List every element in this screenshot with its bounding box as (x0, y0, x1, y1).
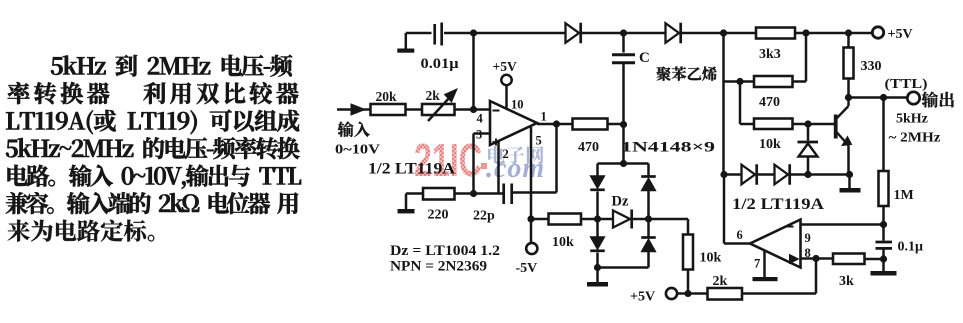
svg-text:6: 6 (737, 228, 743, 242)
U1 minus mark (493, 110, 500, 112)
svg-text:5: 5 (536, 134, 542, 148)
label U1 1/2 LT119A (368, 161, 456, 178)
op-amp U2 1/2 LT119A (750, 220, 801, 268)
label 470 (R8) (759, 95, 780, 110)
label C (639, 50, 650, 66)
label pin 3 (476, 128, 482, 142)
wire node A down to input node (472, 33, 475, 110)
label pin 8 (805, 246, 811, 260)
label 0-10V (335, 142, 380, 157)
U2 plus mark (790, 255, 799, 264)
node bridge bottom (594, 264, 601, 271)
wire R12 to 0.1u node (865, 258, 884, 261)
label 3k (839, 274, 854, 289)
wire to D7 (724, 173, 742, 176)
svg-text:4: 4 (477, 112, 484, 126)
terminal +5V (top right) (872, 27, 883, 38)
svg-text:.com: .com (486, 153, 545, 184)
capacitor C2 22p (504, 184, 512, 205)
label -5V (516, 261, 538, 276)
node pin9 junction (880, 221, 887, 228)
U1 pin 10 stem (505, 85, 508, 109)
node bridge right mid (645, 215, 652, 222)
description text block (6, 55, 301, 242)
wire U2 output (724, 242, 750, 245)
resistor R9 10k (740, 119, 793, 130)
capacitor C4 0.1u (876, 242, 893, 271)
U2 pin 7 stem and ground (753, 250, 778, 281)
capacitor C1 0.01u (435, 23, 474, 46)
wire +5V to R13 (677, 292, 708, 295)
svg-text:10: 10 (511, 98, 524, 112)
svg-text:7: 7 (754, 257, 760, 271)
svg-text:(TTL): (TTL) (885, 77, 928, 92)
wire U2 output up (723, 175, 726, 244)
label 5kHz (896, 112, 928, 127)
label 1N4148x9 (621, 140, 715, 156)
op-amp U1 1/2 LT119A (490, 101, 537, 145)
label Dz = LT1004 1.2 (390, 243, 500, 259)
diode D3 (590, 176, 605, 190)
label pin 1 (541, 110, 547, 124)
diode D5 (590, 237, 605, 251)
label 330 (861, 59, 882, 74)
svg-text:22p: 22p (473, 209, 495, 224)
wire D8 to ground node (791, 171, 854, 178)
svg-text:-5V: -5V (516, 261, 538, 276)
resistor R13 2k (708, 288, 743, 300)
wire down to -5V terminal (530, 219, 533, 243)
terminal -5V (526, 243, 537, 254)
svg-text:1N4148×9: 1N4148×9 (621, 140, 715, 156)
label 2k (R13) (713, 274, 728, 289)
label 2k (426, 88, 441, 103)
node 3k junction (880, 255, 887, 262)
label U2 1/2 LT119A (732, 196, 825, 213)
label 10k (R9) (759, 137, 781, 152)
label +5V (bottom) (630, 290, 655, 305)
svg-text:470: 470 (578, 140, 599, 155)
U1 pin 5 stem (530, 127, 533, 219)
label 22p (473, 209, 495, 224)
wire bus to R8 (724, 78, 755, 85)
capacitor C (polystyrene) (612, 55, 635, 125)
svg-text:0.1μ: 0.1μ (898, 240, 924, 255)
label 1M (894, 188, 914, 203)
node U1 output junction (553, 120, 560, 127)
resistor R4 470 (573, 119, 608, 130)
resistor R5 10k (531, 214, 581, 225)
wire D4 to mid (647, 191, 650, 220)
wire D3 to mid (596, 192, 599, 220)
resistor R10 330 (844, 48, 854, 79)
wire 470-10k link (739, 82, 742, 125)
label output (shuchu) (922, 92, 954, 108)
terminal output (907, 92, 919, 104)
label 220 (428, 208, 449, 223)
diode D6 (641, 238, 656, 252)
label 0.01u (421, 56, 460, 72)
svg-text:3k3: 3k3 (759, 47, 781, 62)
wire top-left to C1 (406, 32, 432, 35)
resistor R1 20k (371, 104, 406, 115)
wire vertical bus (722, 33, 725, 175)
label 20k (376, 89, 398, 104)
terminal +5V (bottom) (666, 288, 677, 299)
svg-text:3: 3 (476, 128, 482, 142)
svg-text:2k: 2k (426, 88, 441, 103)
svg-text:3k: 3k (839, 274, 854, 289)
diode D7 (742, 164, 757, 185)
U1 pin 2 stem (497, 142, 500, 193)
node diode-line left junction (720, 171, 727, 178)
wire R5 to bridge (581, 218, 598, 221)
wire to 22p (474, 192, 504, 195)
ground (0.01u cap) (397, 33, 414, 53)
terminal +5V (U1) (501, 75, 511, 85)
resistor R11 1M (879, 171, 889, 206)
node pin3/22p junction (470, 190, 477, 197)
U1 pin 3 stub (474, 132, 491, 135)
svg-text:1M: 1M (894, 188, 914, 203)
potentiometer R2 2k (422, 89, 457, 121)
ground (220) (398, 194, 424, 214)
svg-text:220: 220 (428, 208, 449, 223)
wire bridge bottom (598, 266, 649, 269)
svg-text:470: 470 (759, 95, 780, 110)
node A junction (top of input filter) (470, 29, 477, 36)
resistor R6 10k (683, 235, 693, 270)
resistor R8 470 (754, 76, 793, 87)
U2 pin 9 wire (801, 223, 884, 226)
input arrow (337, 104, 371, 115)
wire node A to D1 (474, 32, 566, 35)
svg-text:1/2 LT119A: 1/2 LT119A (732, 196, 825, 213)
svg-text:9: 9 (805, 231, 811, 245)
node -5V junction (527, 215, 534, 222)
svg-text:+5V: +5V (888, 27, 913, 42)
wire R1 to R2 (406, 108, 423, 111)
label 10k (R5) (552, 235, 574, 250)
svg-text:1: 1 (541, 110, 547, 124)
label input (shuru) (338, 122, 370, 138)
svg-text:+5V: +5V (493, 59, 517, 74)
svg-text:Dz: Dz (612, 194, 629, 210)
wire bridge right upper (647, 164, 650, 177)
diode D9 (798, 124, 819, 175)
svg-text:+5V: +5V (630, 290, 655, 305)
wire R7 to +5V terminal (795, 29, 872, 36)
svg-text:10k: 10k (552, 235, 574, 250)
wire top rail to R10 (847, 33, 850, 48)
wire D5 to bottom (596, 253, 599, 268)
ground (emitter) (840, 175, 861, 193)
svg-text:1/2 LT119A: 1/2 LT119A (368, 161, 456, 178)
resistor R7 3k3 (756, 28, 795, 39)
label +5V (top right) (888, 27, 913, 42)
svg-text:330: 330 (861, 59, 882, 74)
transistor Q1 2N2369 (836, 98, 852, 175)
label pin 9 (805, 231, 811, 245)
svg-text:C: C (639, 50, 650, 66)
diode D1 (566, 23, 581, 44)
resistor R3 220 (423, 188, 455, 200)
label 0.1u (898, 240, 924, 255)
wire bridge left upper (596, 164, 599, 177)
svg-text:10k: 10k (759, 137, 781, 152)
node C junction (C bottom) (620, 121, 627, 128)
feedback wire to 22p (513, 124, 557, 193)
ground (0.1u) (871, 271, 897, 276)
label pin 5 (536, 134, 542, 148)
U2 pin 8 wire (801, 257, 834, 260)
svg-text:8: 8 (805, 246, 811, 260)
wire output node down (882, 98, 885, 172)
node B junction (top of C) (620, 29, 627, 36)
label 3k3 (759, 47, 781, 62)
label NPN = 2N2369 (390, 259, 487, 275)
wire D2 to R7 (682, 29, 757, 36)
label (TTL) (885, 77, 928, 92)
wire R3 to pin3 node (455, 192, 474, 195)
diode D8 (775, 164, 790, 185)
wire R8 to riser (793, 33, 807, 82)
svg-text:NPN = 2N2369: NPN = 2N2369 (390, 259, 487, 275)
wire R4 to node B branch (608, 123, 624, 126)
label pin 10 (511, 98, 524, 112)
node collector junction (845, 94, 852, 101)
svg-text:0.01μ: 0.01μ (421, 56, 460, 72)
U1 plus mark (493, 139, 500, 146)
label pin 4 (477, 112, 484, 126)
label 470 (R4) (578, 140, 599, 155)
label ~2MHz (889, 131, 941, 146)
U1 output wire (537, 123, 573, 126)
wire R2 to U1 pin4 (455, 106, 491, 113)
wire to output terminal (849, 94, 908, 101)
label 10k (R6) (700, 251, 722, 266)
wire R13 to pin8 riser (742, 259, 816, 294)
svg-text:5kHz: 5kHz (896, 112, 928, 127)
node +5V bottom junction (684, 290, 691, 297)
wire node C to bridge top (620, 125, 627, 168)
wire node B down to C (622, 33, 625, 53)
label pin 7 (754, 257, 760, 271)
label polystyrene (657, 66, 717, 81)
wire node B to D2 (624, 32, 666, 35)
node pin 8 junction (812, 255, 819, 262)
diode Dz (598, 210, 649, 229)
wire bridge top (598, 162, 649, 165)
label Dz (612, 194, 629, 210)
svg-text:~ 2MHz: ~ 2MHz (889, 131, 941, 146)
watermark (414, 134, 545, 186)
svg-text:Dz = LT1004 1.2: Dz = LT1004 1.2 (390, 243, 500, 259)
wire D1 to node B (582, 32, 624, 35)
resistor R12 3k (833, 254, 865, 265)
wire mid to D5 (596, 219, 599, 237)
svg-text:2k: 2k (713, 274, 728, 289)
ground (bridge) (587, 268, 608, 287)
svg-text:0~10V: 0~10V (335, 142, 380, 157)
wire D6 to bottom (647, 252, 650, 268)
wire bridge right mid to R6 (649, 219, 689, 235)
svg-text:10k: 10k (700, 251, 722, 266)
label +5V (U1) (493, 59, 517, 74)
label pin 6 (737, 228, 743, 242)
wire R11 to pin9 node (882, 206, 885, 241)
svg-text:20k: 20k (376, 89, 398, 104)
wire pin3 node down (472, 134, 475, 194)
label pin 2 (503, 147, 509, 161)
wire mid to D6 (647, 219, 650, 238)
diode D2 (666, 23, 681, 44)
node bridge left mid (594, 215, 601, 222)
wire R6 to +5V node (687, 270, 690, 294)
U2 minus mark (786, 226, 794, 228)
svg-text:2: 2 (503, 147, 509, 161)
wire R9 to base (793, 120, 835, 127)
wire R10 to collector node (847, 79, 850, 98)
diode D4 (641, 177, 656, 191)
wire D7-D8 (758, 173, 775, 176)
